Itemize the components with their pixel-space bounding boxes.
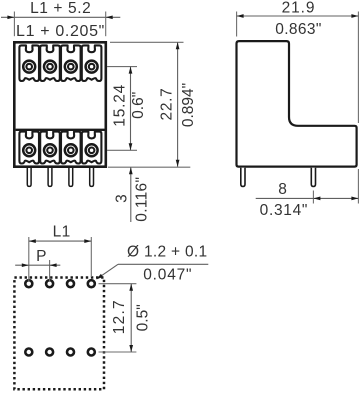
svg-text:3: 3 — [113, 194, 130, 203]
svg-text:12.7: 12.7 — [111, 299, 128, 334]
svg-text:L1: L1 — [53, 224, 71, 241]
svg-text:0.047": 0.047" — [143, 267, 192, 284]
svg-text:8: 8 — [278, 181, 287, 198]
svg-text:0.5": 0.5" — [134, 304, 151, 331]
svg-text:0.6": 0.6" — [130, 92, 147, 119]
svg-text:P: P — [36, 248, 47, 265]
svg-text:L1 + 0.205": L1 + 0.205" — [16, 23, 105, 40]
svg-text:0.894": 0.894" — [180, 83, 197, 127]
svg-text:22.7: 22.7 — [159, 88, 176, 121]
svg-text:0.863": 0.863" — [275, 21, 321, 38]
svg-text:21.9: 21.9 — [282, 0, 316, 17]
svg-text:0.116": 0.116" — [134, 177, 151, 222]
svg-text:0.314": 0.314" — [260, 202, 309, 219]
svg-text:L1 + 5.2: L1 + 5.2 — [30, 0, 91, 17]
svg-text:Ø 1.2 + 0.1: Ø 1.2 + 0.1 — [127, 244, 207, 261]
svg-text:15.24: 15.24 — [112, 84, 129, 127]
